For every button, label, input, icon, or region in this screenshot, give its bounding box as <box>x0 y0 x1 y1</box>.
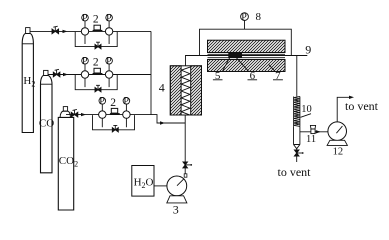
svg-text:8: 8 <box>256 11 262 23</box>
svg-text:4: 4 <box>159 81 165 95</box>
svg-text:3: 3 <box>173 203 179 217</box>
svg-text:CO2: CO2 <box>59 155 78 169</box>
svg-text:9: 9 <box>305 43 311 57</box>
svg-text:12: 12 <box>333 146 344 157</box>
svg-text:11: 11 <box>306 134 316 145</box>
svg-text:CO: CO <box>39 118 54 130</box>
svg-text:P: P <box>241 12 247 23</box>
svg-text:10: 10 <box>301 104 312 115</box>
svg-text:to vent: to vent <box>345 99 379 113</box>
svg-text:to vent: to vent <box>278 165 312 179</box>
